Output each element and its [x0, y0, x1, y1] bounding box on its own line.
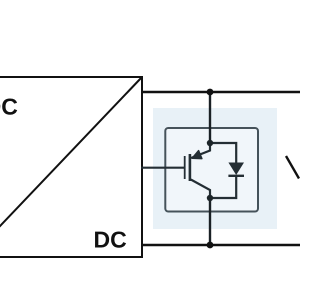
transistor Q1 gate bar	[184, 156, 186, 179]
transistor Q1 collector arrow	[192, 151, 202, 159]
module box (IGBT/diode switch module)	[165, 128, 258, 212]
transistor Q1 collector lead	[191, 143, 210, 158]
junction: top rail node	[207, 89, 214, 96]
converter diagonal	[0, 77, 142, 257]
transistor Q1 emitter lead	[191, 180, 210, 199]
converter box U1 (DC/DC, cropped at left)	[0, 77, 142, 257]
svg-text:DC: DC	[0, 93, 18, 119]
diode D1 cathode bar	[228, 175, 244, 177]
diode D1 anode wire	[210, 143, 236, 163]
diode D1 triangle	[228, 163, 244, 176]
wire: phase vertical upper	[209, 92, 211, 143]
junction: collector node	[207, 140, 213, 146]
transistor Q1 body bar	[189, 154, 192, 181]
wire: gate lead	[141, 167, 184, 169]
diode D1 cathode wire	[210, 176, 236, 198]
wire: bottom DC rail	[141, 244, 300, 246]
wire: phase vertical lower	[209, 198, 211, 245]
partial symbol (cropped diagonal at right edge)	[286, 156, 299, 179]
highlight panel (light blue module area)	[153, 108, 277, 229]
junction: emitter node	[207, 195, 213, 201]
svg-text:DC: DC	[94, 227, 127, 253]
junction: bottom rail node	[207, 242, 214, 249]
wire: top DC rail	[141, 91, 300, 93]
